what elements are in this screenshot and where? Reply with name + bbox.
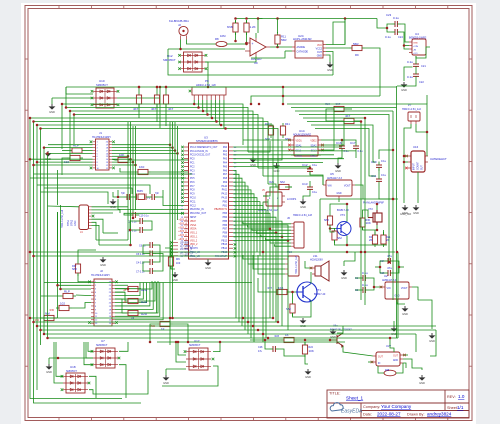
svg-text:VOUT: VOUT (344, 185, 351, 188)
wire (130, 122, 132, 245)
wire (337, 326, 343, 333)
svg-text:GND: GND (402, 312, 408, 316)
wire (146, 221, 152, 230)
MCU right pin no-connects (234, 243, 237, 246)
svg-text:R36: R36 (366, 219, 371, 222)
svg-text:TITLE:: TITLE: (329, 392, 340, 396)
svg-text:+3V3_C: +3V3_C (178, 226, 187, 229)
transistor U6a BC847 (331, 333, 343, 347)
svg-text:STM32F103RBT6: STM32F103RBT6 (196, 139, 218, 143)
wire (41, 192, 109, 204)
wire (295, 110, 393, 112)
wire (115, 283, 160, 317)
wire (285, 50, 292, 52)
svg-text:GND2: GND2 (310, 156, 317, 158)
svg-text:SMF05CT: SMF05CT (66, 370, 77, 373)
svg-text:NM: NM (286, 307, 291, 311)
wire (416, 47, 430, 58)
wire (321, 121, 344, 145)
wire (156, 87, 158, 92)
wire (92, 225, 100, 245)
wire (248, 255, 285, 264)
wire (233, 186, 248, 334)
wire (92, 222, 97, 240)
wire (112, 150, 175, 152)
wire (235, 20, 237, 23)
wire (245, 42, 247, 44)
svg-text:HDR-F-2.54_1x8: HDR-F-2.54_1x8 (196, 83, 216, 87)
wire (214, 100, 216, 122)
wire (403, 363, 406, 368)
wire (365, 48, 380, 96)
wire (255, 56, 257, 62)
svg-text:PC4: PC4 (190, 174, 195, 176)
wire (115, 299, 125, 313)
wire (380, 261, 385, 273)
wire (78, 250, 96, 261)
svg-text:GND: GND (163, 381, 169, 385)
wire (379, 185, 393, 199)
svg-text:PA12: PA12 (222, 193, 228, 196)
wire (346, 204, 348, 222)
ground (172, 272, 179, 278)
wire (330, 229, 335, 233)
wire (92, 219, 104, 233)
wire (162, 366, 218, 386)
svg-text:PA11: PA11 (222, 189, 228, 192)
resistor R27 (274, 289, 290, 294)
wire (70, 111, 253, 160)
wire (37, 185, 150, 194)
wire (375, 266, 380, 268)
wire (159, 87, 161, 128)
wire (233, 209, 266, 338)
svg-text:PA6: PA6 (223, 169, 228, 172)
wire (207, 259, 209, 260)
wire (321, 109, 334, 150)
svg-text:U18: U18 (70, 365, 76, 369)
wire (326, 47, 349, 49)
wire (233, 150, 356, 152)
ground (413, 205, 420, 211)
resistor R32 (41, 315, 57, 320)
wire (92, 206, 129, 208)
transistor VT3 BC817-40 (336, 222, 351, 236)
resistor R40 (268, 123, 273, 138)
svg-text:COUNT: COUNT (418, 161, 420, 170)
svg-text:PA8: PA8 (223, 177, 228, 180)
wire (141, 281, 152, 289)
wire (197, 100, 199, 108)
wire (151, 171, 188, 173)
svg-text:+3V3_C: +3V3_C (178, 234, 187, 237)
wire (303, 301, 311, 318)
crystal Y1 8MHz (137, 194, 147, 201)
svg-text:Date:: Date: (363, 413, 372, 417)
wire (233, 240, 288, 242)
resistor R17 (136, 92, 141, 107)
wire (85, 150, 93, 152)
wire (270, 46, 292, 48)
svg-text:0.1u: 0.1u (393, 16, 399, 20)
wire (233, 206, 263, 343)
wire (112, 147, 173, 149)
wire (233, 202, 260, 256)
wire (40, 317, 57, 319)
wire (233, 232, 276, 234)
wire (355, 152, 357, 158)
wire (258, 255, 285, 274)
svg-text:PB4: PB4 (223, 217, 228, 219)
svg-text:GND: GND (46, 370, 52, 374)
ground (45, 151, 52, 157)
svg-text:7pF: 7pF (155, 193, 160, 195)
wire (78, 274, 91, 282)
capacitor C18 (152, 194, 154, 200)
wire (30, 317, 273, 319)
svg-text:PA7: PA7 (223, 173, 228, 176)
wire (268, 184, 276, 187)
resistor R38 (125, 310, 141, 315)
wire (299, 115, 389, 263)
capacitor C23 (395, 21, 397, 27)
wire (156, 254, 163, 272)
wire (393, 321, 395, 326)
svg-text:PA9: PA9 (223, 181, 228, 184)
wire (303, 118, 365, 305)
resistor R9 (349, 45, 365, 50)
transistor VT1 BC817-40 (296, 282, 317, 302)
wire (165, 104, 167, 126)
wire (404, 45, 409, 47)
ground (300, 199, 307, 205)
svg-text:PB8: PB8 (223, 233, 228, 235)
svg-text:8MHz: 8MHz (137, 190, 144, 193)
svg-text:PB0: PB0 (223, 201, 228, 203)
svg-text:J1: J1 (99, 131, 102, 135)
wire (65, 87, 67, 108)
svg-text:0.1u: 0.1u (312, 190, 318, 194)
wire (357, 120, 362, 122)
svg-text:SMF05CT: SMF05CT (189, 344, 201, 347)
svg-text:1/1: 1/1 (457, 405, 464, 410)
svg-text:R26: R26 (269, 180, 274, 184)
svg-text:VDD2: VDD2 (310, 141, 317, 143)
svg-text:SMF05CT: SMF05CT (96, 83, 108, 87)
ground (330, 329, 337, 335)
wire (243, 255, 285, 259)
svg-text:0.1u: 0.1u (381, 173, 387, 177)
wire (338, 152, 342, 163)
wire (115, 292, 125, 301)
svg-text:OUT: OUT (378, 357, 383, 359)
wire (415, 56, 417, 61)
header J4 HDR-F-2.54_1x8 (79, 205, 92, 230)
svg-text:R24: R24 (309, 346, 314, 349)
wire (251, 51, 285, 58)
wire (292, 292, 294, 301)
wire (41, 129, 279, 323)
svg-text:VSS_1: VSS_1 (190, 233, 198, 235)
svg-text:L4-VB5K_3: L4-VB5K_3 (180, 249, 192, 251)
wire (310, 272, 312, 276)
resistor R35 (384, 370, 396, 376)
wire (404, 155, 408, 157)
wire (277, 44, 279, 47)
wire (338, 199, 340, 202)
wire (48, 337, 399, 339)
wire (37, 325, 436, 327)
wire (30, 118, 122, 399)
resistor R18 (154, 92, 159, 107)
wire (44, 333, 416, 335)
ground (163, 375, 170, 381)
svg-text:VDD1: VDD1 (296, 141, 303, 143)
wire (412, 287, 418, 300)
svg-text:56R: 56R (353, 42, 359, 46)
svg-text:PC1: PC1 (190, 162, 195, 164)
ground (305, 369, 312, 375)
resistor R5 (67, 155, 83, 160)
svg-text:PC9: PC9 (190, 194, 195, 196)
wire (115, 284, 128, 286)
wire (43, 148, 45, 334)
wire (47, 153, 49, 338)
wire (387, 24, 392, 32)
wire (401, 32, 409, 49)
svg-text:Your Company: Your Company (381, 404, 412, 409)
ground (402, 306, 409, 312)
svg-text:U4: U4 (415, 32, 419, 36)
wire (379, 150, 393, 159)
ground (100, 257, 107, 263)
wire (115, 288, 128, 290)
wire (132, 126, 134, 218)
svg-text:PA0: PA0 (223, 146, 228, 149)
wire (376, 204, 378, 210)
wire (112, 158, 131, 160)
svg-text:C19 0.1u: C19 0.1u (139, 215, 149, 218)
svg-text:ADUM1250ARZ: ADUM1250ARZ (293, 134, 311, 137)
wire (213, 342, 220, 352)
wire (350, 18, 377, 20)
svg-text:10M: 10M (220, 34, 226, 38)
wire (246, 20, 248, 23)
wire (396, 86, 398, 338)
wire (40, 129, 42, 346)
svg-text:PB12: PB12 (221, 240, 227, 242)
wire (115, 283, 163, 320)
opto relay LOOP1 (263, 192, 285, 206)
wire (61, 205, 92, 289)
svg-text:GND: GND (413, 211, 419, 215)
wire (416, 124, 427, 132)
wire (76, 294, 91, 297)
wire (343, 261, 345, 266)
svg-text:GND1: GND1 (296, 156, 303, 158)
wire (243, 139, 291, 141)
wire (174, 122, 176, 240)
wire (403, 70, 405, 81)
wire (165, 248, 171, 254)
wire (265, 291, 274, 293)
wire (383, 230, 385, 235)
svg-text:GND: GND (336, 193, 341, 195)
wire (378, 169, 380, 176)
svg-text:HDR-F-2.54_1x8: HDR-F-2.54_1x8 (293, 214, 313, 217)
wire (66, 87, 93, 94)
wire (310, 276, 312, 284)
wire (233, 178, 242, 326)
wire (34, 164, 93, 166)
junction dots (29, 117, 32, 120)
wire (118, 199, 184, 209)
svg-text:PC0: PC0 (190, 159, 195, 161)
svg-text:C14: C14 (380, 260, 385, 263)
svg-text:VDD_1: VDD_1 (190, 236, 198, 238)
resistor R20 (135, 169, 151, 174)
wire (261, 235, 291, 237)
svg-text:PC12: PC12 (190, 205, 196, 207)
svg-text:C22: C22 (419, 80, 424, 84)
svg-text:RLP: RLP (73, 144, 79, 148)
wire (41, 329, 437, 331)
wire (141, 281, 155, 301)
wire (112, 152, 178, 154)
svg-text:B0505S-1WR2: B0505S-1WR2 (409, 36, 427, 40)
svg-text:IN: IN (378, 363, 381, 365)
wire (233, 154, 334, 156)
svg-text:HC-PM3LF126H: HC-PM3LF126H (91, 274, 110, 277)
svg-text:47u: 47u (387, 254, 392, 258)
wire (58, 212, 92, 285)
svg-text:GND: GND (419, 381, 425, 385)
wire (62, 150, 69, 152)
capacitor C8 (140, 218, 142, 224)
wire (117, 97, 160, 99)
IC U16 counter (408, 151, 428, 172)
ground (327, 62, 334, 68)
svg-text:VBAT: VBAT (190, 220, 196, 223)
svg-text:10K: 10K (119, 153, 124, 157)
wire (394, 261, 399, 273)
wire (120, 168, 135, 172)
svg-text:PC7: PC7 (190, 186, 195, 188)
wire (417, 172, 419, 203)
wire (166, 368, 186, 370)
wire (115, 291, 125, 293)
svg-text:R11: R11 (281, 35, 286, 39)
svg-text:C21: C21 (421, 64, 426, 68)
wire (30, 118, 263, 176)
wire (41, 295, 60, 297)
wire (326, 19, 345, 45)
wire (89, 376, 96, 398)
capacitor C11 (376, 179, 382, 181)
resistor R26 (276, 184, 292, 189)
wire (326, 55, 330, 62)
wire (99, 244, 131, 246)
wire (320, 251, 395, 253)
resistor R6 (168, 254, 173, 269)
wire (130, 229, 137, 231)
svg-text:+3V3_A: +3V3_A (178, 238, 187, 241)
resistor R8 10M (216, 41, 227, 46)
svg-text:R21: R21 (386, 236, 391, 239)
svg-text:GND: GND (394, 296, 399, 298)
svg-text:J2: J2 (178, 23, 181, 27)
svg-text:UV7: UV7 (386, 344, 392, 348)
wire (243, 222, 291, 224)
svg-text:PB5: PB5 (223, 221, 228, 223)
svg-text:RLP: RLP (64, 290, 70, 294)
svg-text:PA10: PA10 (222, 185, 228, 188)
ground (419, 375, 426, 381)
svg-text:PB13: PB13 (221, 244, 227, 246)
wire (150, 324, 157, 342)
svg-text:R22: R22 (151, 325, 156, 328)
wire (48, 144, 93, 146)
capacitor C7 (150, 268, 152, 274)
svg-text:PC3: PC3 (190, 170, 195, 172)
wire (118, 190, 124, 197)
wire (233, 182, 245, 330)
svg-text:PB7: PB7 (223, 229, 228, 231)
wire (30, 158, 93, 160)
svg-text:EasyEDA: EasyEDA (341, 409, 363, 415)
wire (253, 141, 282, 160)
svg-text:0.1u: 0.1u (407, 75, 413, 79)
svg-text:GND: GND (341, 276, 347, 280)
BNC connector J2 (179, 26, 188, 39)
wire (233, 213, 270, 318)
svg-text:J6: J6 (287, 216, 290, 220)
wire (156, 245, 160, 262)
svg-text:U3: U3 (204, 136, 208, 140)
svg-text:PB6: PB6 (223, 225, 228, 227)
wire (397, 302, 405, 304)
wire (51, 98, 53, 104)
svg-text:BC817-40: BC817-40 (337, 208, 349, 212)
wire (235, 33, 237, 41)
wire (355, 185, 363, 199)
svg-text:R9: R9 (355, 53, 359, 57)
svg-text:GND: GND (402, 211, 408, 215)
wire (143, 262, 147, 271)
svg-text:+3V3_C: +3V3_C (178, 230, 187, 233)
wire (219, 100, 221, 125)
wire (115, 283, 150, 306)
wire (57, 212, 59, 318)
IC U7 SMF05CT (93, 348, 118, 368)
wire (127, 122, 129, 240)
wire (233, 228, 270, 230)
svg-text:INPUT: INPUT (414, 163, 416, 170)
wire (48, 358, 50, 364)
IC U12 SMF05CT (181, 52, 206, 72)
wire (307, 122, 361, 301)
wire (315, 129, 376, 177)
wire (210, 100, 212, 118)
wire (143, 245, 147, 254)
wire (124, 213, 184, 215)
svg-text:GND: GND (429, 339, 435, 343)
wire (320, 198, 398, 200)
wire (115, 283, 147, 303)
svg-text:GND: GND (317, 55, 323, 58)
wire (92, 212, 114, 214)
svg-text:ANODE: ANODE (297, 46, 306, 49)
